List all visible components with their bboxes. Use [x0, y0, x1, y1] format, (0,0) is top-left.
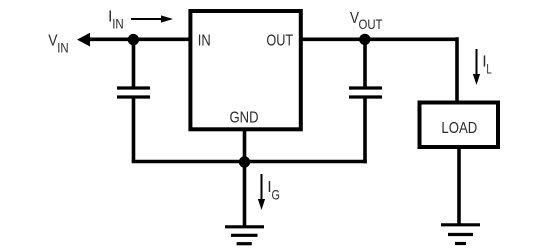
wire bottom rail: [132, 160, 367, 164]
arrow IL current direction: [473, 49, 480, 85]
label IIN: [108, 8, 124, 31]
arrow IG current direction: [258, 174, 265, 210]
label VOUT: [350, 10, 383, 32]
arrow VIN pointing left: [77, 33, 90, 47]
capacitor C2: [349, 88, 382, 97]
svg-text:L: L: [486, 61, 492, 77]
wire C1 bottom lead: [132, 97, 136, 162]
wire VOUT corner down to load: [455, 37, 459, 102]
svg-text:IN: IN: [112, 15, 124, 31]
label IL: [482, 54, 492, 77]
node ground junction: [239, 156, 250, 167]
label IG: [267, 179, 280, 203]
ground symbol center: [225, 227, 264, 244]
wire junction to ground: [243, 162, 247, 228]
load box: [420, 103, 499, 148]
label VIN: [48, 32, 68, 55]
svg-text:IN: IN: [198, 32, 211, 49]
ground symbol right: [441, 225, 480, 244]
wire C1 top lead: [132, 39, 136, 88]
wire output OUT pin to load corner: [300, 37, 457, 41]
wire C2 top lead: [363, 39, 367, 88]
svg-text:LOAD: LOAD: [441, 120, 477, 137]
svg-text:IN: IN: [57, 39, 68, 55]
svg-text:G: G: [272, 187, 280, 203]
node input junction: [128, 34, 139, 45]
svg-text:OUT: OUT: [266, 32, 293, 49]
svg-text:OUT: OUT: [359, 16, 383, 32]
node output junction: [359, 34, 370, 45]
arrow IIN current direction: [131, 15, 173, 22]
wire input VIN to IN pin: [88, 37, 190, 41]
svg-text:GND: GND: [230, 110, 259, 127]
wire GND pin: [243, 129, 247, 162]
wire load to ground: [457, 147, 461, 225]
capacitor C1: [117, 88, 150, 97]
regulator U1: [190, 11, 300, 129]
wire C2 bottom lead: [363, 97, 367, 163]
